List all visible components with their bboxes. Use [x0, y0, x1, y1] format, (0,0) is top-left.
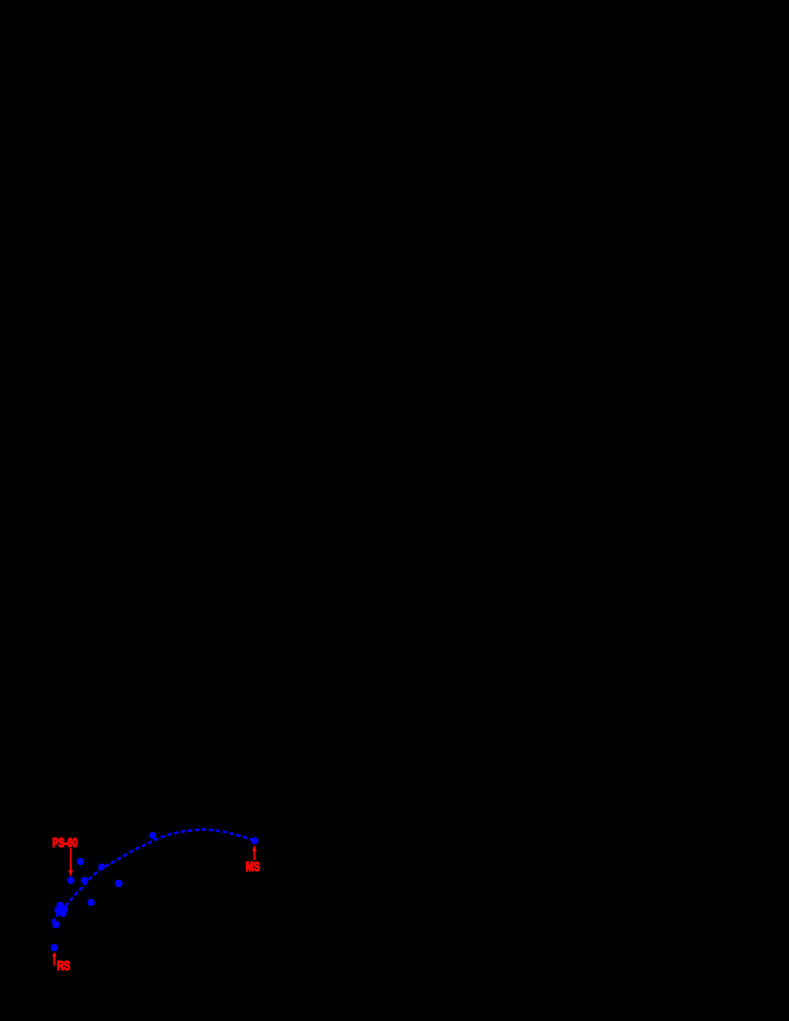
- svg-text:MS: MS: [246, 859, 260, 874]
- data point: [77, 858, 84, 865]
- data point MS: [251, 837, 258, 844]
- svg-text:PS-60: PS-60: [52, 835, 77, 850]
- data point below cluster: [52, 921, 60, 929]
- data point: [81, 877, 88, 884]
- arrow RS (up): [53, 956, 55, 965]
- data point RS: [51, 944, 58, 951]
- data point: [88, 899, 95, 906]
- data point: [98, 863, 105, 870]
- cluster point 2: [61, 906, 68, 913]
- data point near apex: [149, 832, 156, 839]
- cluster point 1: [57, 902, 64, 909]
- cluster point 4: [59, 910, 66, 917]
- cluster point 3: [54, 907, 61, 914]
- fitted dashed curve: [52, 829, 255, 922]
- data point PS-60: [67, 877, 74, 884]
- svg-text:RS: RS: [57, 958, 70, 973]
- arrow PS-60 (down): [70, 848, 72, 871]
- arrow MS (up): [253, 851, 255, 860]
- data point: [115, 880, 123, 888]
